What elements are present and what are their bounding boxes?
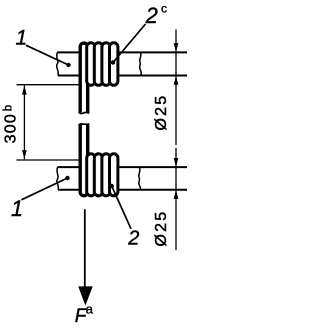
rope 2: bottom coil turn 3 (102, 154, 110, 196)
pin 1 bottom: lower edge (58, 189, 187, 191)
dim diameter 25 bottom: dimension line (175, 148, 177, 250)
rope 2: top coil turn 3 (102, 43, 110, 86)
dim diameter 25 bottom: lower arrowhead (174, 190, 179, 199)
rope 2: bottom coil turn 2 (94, 154, 102, 196)
svg-text:1: 1 (15, 26, 27, 49)
leader line for label 1 top (26, 45, 69, 65)
leader line for label 2c top (113, 24, 146, 63)
svg-text:Ø25: Ø25 (153, 210, 170, 247)
leader dot on pin 1 top (66, 63, 70, 67)
svg-text:300: 300 (3, 113, 20, 143)
pin 1 bottom: upper edge (57, 166, 187, 168)
svg-text:2: 2 (145, 3, 158, 28)
dim diameter 25 top: upper arrowhead (174, 43, 179, 52)
force arrow F: head (78, 286, 93, 305)
force arrow F: shaft (84, 209, 86, 288)
dim diameter 25 bottom: upper arrowhead (174, 158, 179, 167)
pin 1 top: left break line (57, 52, 59, 75)
rope 2: top coil turn 4 (110, 43, 118, 86)
leader dot on pin 1 bottom (65, 176, 69, 180)
dim 300: lower arrowhead (22, 150, 27, 159)
rope 2: bottom coil turn 0 and rising rope segment (80, 125, 88, 196)
dim diameter 25 top: lower arrowhead (174, 76, 179, 85)
leader dot on bottom coil (110, 184, 114, 188)
rope 2: top coil turn 2 (94, 43, 102, 86)
rope 2: top coil turn 1 (87, 43, 95, 86)
svg-text:c: c (161, 2, 167, 16)
leader line for label 1 bottom (21, 178, 67, 200)
leader dot on top coil (111, 60, 115, 64)
svg-text:a: a (86, 301, 94, 316)
rope 2: bottom coil turn 1 (87, 154, 95, 196)
svg-text:Ø25: Ø25 (153, 94, 170, 131)
dim 300: upper arrowhead (22, 85, 27, 94)
svg-text:2: 2 (127, 228, 139, 250)
pin 1 bottom: left break line (57, 167, 59, 190)
dim 300: dimension line (23, 85, 25, 159)
rope 2: cut end of upper rope segment (79, 112, 90, 114)
svg-text:b: b (3, 105, 15, 111)
dim 300: top extension line (17, 84, 80, 86)
pin 1 top: right break line (140, 52, 142, 75)
rope 2: top coil turn 0 and hanging rope segment (80, 43, 88, 112)
rope 2: bottom coil turn 4 (110, 154, 118, 196)
pin 1 bottom: right break line (139, 167, 141, 190)
rope 2: cut end of lower rope segment (79, 124, 90, 126)
pin 1 top: lower edge (58, 75, 187, 77)
svg-text:1: 1 (11, 196, 23, 221)
pin 1 top: upper edge (57, 51, 187, 53)
dim diameter 25 top: dimension line (175, 30, 177, 146)
leader line for label 2 bottom (112, 186, 131, 229)
dim 300: bottom extension line (17, 159, 80, 161)
